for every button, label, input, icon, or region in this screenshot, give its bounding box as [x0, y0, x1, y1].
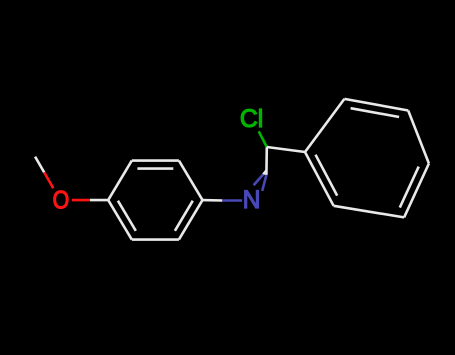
left ring inner double bond lower-left	[118, 201, 136, 231]
bond O-C1 carbon half	[90, 199, 108, 202]
bond CH3-O oxygen half	[44, 172, 53, 188]
double bond N=C inner, C tip	[263, 171, 266, 175]
bond O-C1 oxygen half	[72, 199, 90, 202]
bond C4-N nitrogen half	[222, 199, 242, 202]
right ring bond V0-BL	[305, 152, 334, 206]
double bond N=C main, C half	[265, 147, 268, 175]
double bond N=C main, N half	[262, 175, 266, 191]
right ring bond BL-BR	[334, 206, 405, 218]
right ring inner double bond top	[351, 108, 400, 117]
left ring bond BR-BL	[132, 238, 179, 241]
left ring inner double bond lower-right	[175, 201, 193, 231]
right ring inner double bond lower-left	[316, 155, 338, 196]
left ring bond BL-L	[108, 200, 132, 240]
left ring bond L-TL	[108, 161, 132, 201]
right ring bond T-V0	[305, 99, 344, 152]
right ring bond R-TR	[408, 111, 429, 164]
right ring inner double bond lower-right	[400, 167, 419, 208]
bond C-phenyl	[267, 147, 305, 152]
svg-text:Cl: Cl	[240, 106, 263, 133]
right ring bond BR-R	[404, 164, 429, 218]
left ring bond TL-TR	[132, 159, 179, 162]
left ring bond TR-R	[179, 161, 203, 201]
right ring bond TR-T	[344, 99, 408, 111]
bond CH3-O carbon half	[35, 157, 44, 173]
left ring bond R-BR	[179, 200, 203, 240]
double bond N=C inner, N half	[254, 174, 264, 185]
svg-text:N: N	[243, 187, 261, 214]
svg-text:O: O	[53, 188, 70, 215]
left ring inner double bond top	[137, 167, 173, 170]
bond Cl-C	[259, 131, 267, 147]
bond C4-N carbon half	[203, 199, 223, 202]
